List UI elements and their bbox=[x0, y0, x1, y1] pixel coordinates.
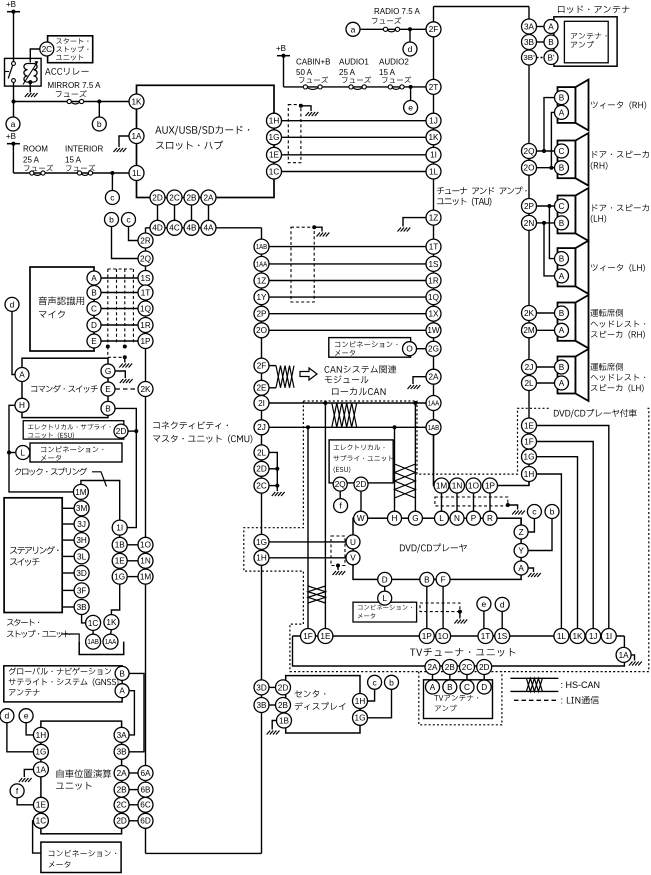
connector 1G pos bbox=[33, 744, 48, 759]
node f stub bbox=[17, 798, 33, 804]
connector C mic bbox=[87, 302, 101, 316]
connector 3M steering bbox=[74, 501, 89, 516]
svg-text:2C: 2C bbox=[462, 663, 473, 672]
label TV tuner bbox=[410, 649, 416, 656]
svg-text:50 A: 50 A bbox=[296, 68, 313, 77]
ground CMU-TAU shield bbox=[317, 233, 330, 237]
connector 6C cmu bbox=[138, 797, 153, 812]
connector D tvamp bbox=[477, 680, 491, 694]
wire 1A ground tv bbox=[631, 655, 634, 661]
connector 1G disp bbox=[353, 710, 368, 725]
connector 3B steering bbox=[74, 600, 89, 615]
svg-text:4A: 4A bbox=[203, 224, 214, 233]
wire can to 1E tv bbox=[324, 403, 326, 629]
wire A ground bbox=[529, 568, 534, 572]
connector 2R cmu bbox=[138, 233, 153, 248]
wire H left down bbox=[9, 405, 73, 492]
svg-text:2C: 2C bbox=[169, 193, 180, 202]
wire G ground bbox=[116, 371, 126, 378]
svg-text:L: L bbox=[21, 448, 26, 457]
twisted pair to tv bbox=[308, 586, 325, 603]
svg-text:1J: 1J bbox=[429, 117, 438, 126]
connector W dvd bbox=[354, 511, 368, 525]
svg-text:2N: 2N bbox=[524, 219, 535, 228]
svg-text:2R: 2R bbox=[140, 236, 151, 245]
svg-text:2L: 2L bbox=[524, 379, 534, 388]
label local CAN bbox=[332, 388, 338, 395]
svg-text::: : bbox=[561, 696, 564, 706]
node d left bbox=[5, 297, 19, 311]
node b stub top bbox=[112, 227, 139, 259]
svg-text:1B: 1B bbox=[115, 541, 126, 550]
connector 2C tv bbox=[460, 660, 475, 675]
node b cmu bbox=[105, 213, 119, 227]
svg-text:1L: 1L bbox=[132, 169, 142, 178]
wire aux row 1C-1L bbox=[282, 171, 427, 173]
svg-text:2Q: 2Q bbox=[524, 147, 535, 156]
connector 2J tau-sp bbox=[522, 360, 537, 375]
svg-text:3J: 3J bbox=[77, 520, 86, 529]
svg-text:1T: 1T bbox=[481, 632, 491, 641]
svg-text:1K: 1K bbox=[572, 632, 583, 641]
ground aux shield bbox=[306, 112, 319, 116]
wire +B2 down bbox=[12, 144, 14, 173]
connector 1E pos bbox=[33, 797, 48, 812]
svg-text:A: A bbox=[19, 370, 25, 379]
connector 2G tau bbox=[426, 341, 441, 356]
fuse MIRROR bbox=[71, 102, 80, 104]
wire Z to c bbox=[529, 519, 535, 532]
svg-text:ROOM: ROOM bbox=[23, 144, 48, 153]
connector R dvd bbox=[483, 511, 497, 525]
connector 4B cmu bbox=[184, 220, 199, 235]
connector B tvamp bbox=[443, 680, 457, 694]
svg-text:G: G bbox=[105, 367, 111, 376]
connector 1N dvd-cable bbox=[450, 478, 465, 493]
wire Y to b bbox=[529, 519, 552, 551]
connector 1Y cmu bbox=[254, 290, 269, 305]
svg-text:b: b bbox=[550, 507, 555, 517]
node c bbox=[105, 191, 119, 205]
svg-text:B: B bbox=[559, 219, 565, 228]
wire 1E tau to 1I tv bbox=[537, 426, 609, 629]
wire room/interior run bbox=[13, 172, 129, 174]
connector 2A aux bbox=[201, 190, 216, 205]
connector 1C pos bbox=[33, 813, 48, 828]
connector 2B pos bbox=[114, 782, 129, 797]
svg-text:2A: 2A bbox=[203, 193, 214, 202]
connector 4D cmu bbox=[150, 220, 165, 235]
svg-text:1T: 1T bbox=[141, 288, 151, 297]
svg-text:2K: 2K bbox=[140, 385, 151, 394]
svg-text:2B: 2B bbox=[278, 701, 289, 710]
node b disp bbox=[385, 675, 399, 689]
connector 2D disp bbox=[276, 680, 291, 695]
start-stop unit bracket bbox=[79, 642, 124, 655]
ground G bbox=[120, 379, 133, 383]
label CAN system modules bbox=[325, 366, 330, 373]
svg-text:1N: 1N bbox=[140, 557, 151, 566]
svg-text:1A: 1A bbox=[619, 651, 630, 660]
wire steering 3L bbox=[62, 555, 74, 557]
connector 3A tau-ant bbox=[522, 19, 537, 34]
connector B2 ant bbox=[544, 51, 558, 65]
wire steering 3D bbox=[62, 572, 74, 574]
connector B hr LH bbox=[555, 360, 569, 374]
node c stub bbox=[111, 173, 113, 190]
wire 2Q-C doorRH bbox=[537, 150, 555, 152]
svg-text:L: L bbox=[382, 594, 387, 603]
wire D to L meter bbox=[384, 587, 386, 591]
connector A hr LH bbox=[555, 376, 569, 390]
svg-text:1S: 1S bbox=[497, 632, 508, 641]
svg-text:2A: 2A bbox=[427, 663, 438, 672]
svg-text:1C: 1C bbox=[269, 167, 280, 176]
wire 1Z ground bbox=[403, 218, 426, 227]
connector 2D esu-left bbox=[114, 424, 128, 438]
svg-text:a: a bbox=[351, 24, 356, 34]
wire tweeter RH A bbox=[551, 112, 554, 167]
connector 1I tv bbox=[601, 629, 616, 644]
connector 2Q tau-sp bbox=[522, 144, 537, 159]
wire F to 1O tv bbox=[442, 587, 444, 629]
svg-text:2D: 2D bbox=[116, 427, 127, 436]
connector 1G cmu-dvd bbox=[254, 534, 269, 549]
connector 1H aux bbox=[267, 113, 282, 128]
GNSS antenna box bbox=[4, 666, 122, 702]
svg-text:6C: 6C bbox=[140, 801, 151, 810]
svg-text:3B: 3B bbox=[117, 748, 128, 757]
svg-text:2B: 2B bbox=[445, 663, 456, 672]
svg-text:1H: 1H bbox=[256, 554, 267, 563]
TAU left leg to 1M bbox=[434, 435, 436, 486]
wire B gnss to 3B bbox=[129, 673, 144, 751]
wire cmu to display 2D bbox=[269, 686, 276, 688]
wire aux row 1E-1I bbox=[282, 154, 427, 156]
connector 2A pos bbox=[114, 766, 129, 781]
svg-text:1X: 1X bbox=[428, 310, 439, 319]
wire +B down to relay bbox=[13, 12, 15, 62]
connector 2O tau-sp bbox=[522, 160, 537, 175]
node f pos bbox=[10, 784, 24, 798]
connector 3B2 tau-ant bbox=[522, 50, 537, 65]
svg-text:1S: 1S bbox=[428, 260, 439, 269]
connector 1K aux bbox=[129, 94, 144, 109]
wire 2Q esu to f bbox=[339, 492, 341, 499]
ground dvd shield bbox=[512, 511, 525, 515]
wire steering 3B bbox=[62, 606, 74, 608]
svg-text:E: E bbox=[105, 385, 111, 394]
svg-text:3D: 3D bbox=[76, 569, 87, 578]
svg-text:2D: 2D bbox=[479, 663, 490, 672]
connector 4C cmu bbox=[167, 220, 182, 235]
svg-text:3B: 3B bbox=[77, 603, 88, 612]
connector L dvd bbox=[435, 511, 449, 525]
rod antenna outer box bbox=[554, 17, 617, 66]
connectors 1M-1P row wires bbox=[441, 493, 443, 511]
svg-text:1AA: 1AA bbox=[105, 637, 117, 646]
connector 1AA cmu bbox=[254, 256, 269, 271]
fuse AUDIO1 bbox=[353, 87, 363, 89]
svg-text:3B: 3B bbox=[524, 38, 535, 47]
svg-text:c: c bbox=[372, 677, 377, 687]
node c dvd bbox=[527, 505, 541, 519]
wire 1H tau to 1L tv bbox=[537, 474, 562, 629]
node e tv bbox=[477, 597, 491, 611]
connector D mic bbox=[87, 318, 101, 332]
connector A ant bbox=[544, 20, 558, 34]
DVD/CD player box bbox=[353, 518, 521, 579]
connector 1Q cmu-mic bbox=[138, 301, 153, 316]
svg-text:1M: 1M bbox=[140, 573, 152, 582]
svg-text:1AB: 1AB bbox=[428, 423, 440, 432]
connector 2K cmu bbox=[138, 382, 153, 397]
wire CMU-TAU row 1AB-1T bbox=[269, 246, 426, 248]
connector 1Z cmu bbox=[254, 273, 269, 288]
node a radio bbox=[346, 22, 360, 36]
svg-text:1L: 1L bbox=[557, 632, 567, 641]
svg-text:1AB: 1AB bbox=[256, 242, 268, 251]
speaker headrest RH bbox=[558, 303, 576, 341]
AUX/USB/SD card slot hub box bbox=[137, 85, 275, 197]
connector 6B cmu bbox=[138, 782, 153, 797]
CMU left edge bbox=[145, 228, 147, 854]
connector 2M tau-sp bbox=[522, 323, 537, 338]
node d stub bbox=[409, 29, 411, 42]
connector B tweeter RH bbox=[555, 91, 569, 105]
connector P dvd bbox=[467, 511, 481, 525]
connector 2T tau bbox=[426, 79, 441, 94]
connector 3F steering bbox=[74, 583, 89, 598]
node d tv bbox=[495, 597, 509, 611]
fuse INTERIOR bbox=[81, 174, 89, 176]
tv tuner bottom stubs bbox=[432, 675, 434, 681]
label clock spring bbox=[15, 468, 21, 475]
speaker tweeter RH bbox=[558, 87, 576, 123]
wire 2L-2D-2C ground bbox=[269, 452, 277, 491]
connector 1AB cmu bbox=[254, 239, 269, 254]
wire CMU-TAU row 2O-1W bbox=[269, 329, 426, 331]
wire cmu 1H to V bbox=[269, 557, 346, 559]
wire local CAN low bbox=[269, 426, 426, 428]
connector 1H tau-dvd bbox=[522, 467, 537, 482]
wire aux row 1H-1J bbox=[282, 120, 427, 122]
svg-text:3A: 3A bbox=[524, 22, 535, 31]
wire 2K-B hrRH bbox=[537, 312, 555, 314]
svg-text:C: C bbox=[559, 147, 565, 156]
svg-text:1AA: 1AA bbox=[428, 399, 440, 408]
svg-text:2P: 2P bbox=[524, 202, 535, 211]
connector L meter bbox=[378, 591, 392, 605]
wire 2L-A hrLH bbox=[537, 382, 555, 384]
node e stub bbox=[410, 87, 412, 101]
svg-text:1P: 1P bbox=[140, 337, 151, 346]
wire 3A-A bbox=[537, 26, 544, 28]
wire cmu to display 2B bbox=[269, 704, 276, 706]
svg-text:2K: 2K bbox=[524, 309, 535, 318]
speaker headrest LH bbox=[558, 357, 576, 394]
svg-text:2C: 2C bbox=[116, 801, 127, 810]
svg-text:E: E bbox=[91, 337, 97, 346]
connector 1R tau bbox=[426, 273, 441, 288]
connector 2A tau bbox=[426, 369, 441, 384]
node d stub left bbox=[12, 312, 15, 375]
svg-text:1O: 1O bbox=[468, 481, 479, 490]
label door speaker LH bbox=[593, 204, 598, 211]
node b stub bbox=[98, 102, 100, 118]
connector F dvd bbox=[436, 572, 450, 586]
connector 1L tv bbox=[554, 629, 569, 644]
connector 1I col bbox=[112, 520, 127, 535]
svg-text:6B: 6B bbox=[140, 786, 151, 795]
svg-text:2E: 2E bbox=[256, 384, 267, 393]
wire 1A ground bbox=[119, 136, 129, 147]
svg-text:1Q: 1Q bbox=[140, 304, 151, 313]
svg-text:B: B bbox=[559, 164, 565, 173]
connector 1S tv bbox=[495, 629, 510, 644]
svg-text:d: d bbox=[500, 599, 505, 609]
connector 1M dvd-cable bbox=[434, 478, 449, 493]
ground A dvd bbox=[528, 573, 541, 577]
svg-text:4C: 4C bbox=[169, 224, 180, 233]
svg-text:B': B' bbox=[547, 53, 554, 62]
node d radio bbox=[403, 42, 417, 56]
connector B tweeter LH bbox=[555, 252, 569, 266]
svg-text:3A: 3A bbox=[117, 731, 128, 740]
svg-text:2L: 2L bbox=[257, 448, 267, 457]
connector L meter-left bbox=[16, 446, 30, 460]
ESU box left bbox=[23, 421, 124, 439]
svg-text:2Q: 2Q bbox=[140, 254, 151, 263]
connector 2F tau bbox=[426, 22, 441, 37]
connector 4A cmu bbox=[201, 220, 216, 235]
connector 3L steering bbox=[74, 549, 89, 564]
arrow to CAN module bbox=[300, 368, 317, 380]
svg-text:1O: 1O bbox=[438, 632, 449, 641]
svg-text:1Y: 1Y bbox=[256, 293, 267, 302]
connector 1H pos bbox=[33, 727, 48, 742]
wire 1G-1M bbox=[127, 576, 138, 578]
connector A tvamp bbox=[426, 680, 440, 694]
wire 2F-2E CAN stubs bbox=[269, 365, 276, 367]
node e stub gnss bbox=[26, 723, 33, 735]
wire 1E-1N bbox=[127, 560, 138, 562]
svg-text:1K: 1K bbox=[131, 97, 142, 106]
svg-text:1O: 1O bbox=[140, 541, 151, 550]
wire cmu 1G to U bbox=[269, 541, 346, 543]
svg-text:N: N bbox=[454, 514, 460, 523]
connector 3J steering bbox=[74, 517, 89, 532]
legend HS-CAN bbox=[510, 677, 558, 679]
connector 2C cmu bbox=[254, 478, 269, 493]
svg-text:RADIO 7.5 A: RADIO 7.5 A bbox=[374, 7, 420, 16]
svg-text:+B: +B bbox=[276, 44, 286, 53]
TAU left leg bbox=[433, 7, 435, 436]
node b dvd bbox=[545, 505, 559, 519]
connector 1P dvd-cable bbox=[483, 478, 498, 493]
connector U dvd bbox=[346, 535, 360, 549]
label ACC relay bbox=[45, 68, 51, 75]
connector 2I cmu bbox=[254, 396, 269, 411]
shield around CMU-TAU wires bbox=[291, 227, 314, 302]
CMU top edge bbox=[146, 227, 262, 229]
svg-text:2A: 2A bbox=[428, 373, 439, 382]
connector 2C pos bbox=[114, 797, 129, 812]
node f esu bbox=[334, 499, 348, 513]
connector 1M cmu2 bbox=[138, 569, 153, 584]
node a stub bbox=[13, 102, 15, 118]
CMU right edge bbox=[261, 228, 263, 854]
wire mirror fuse run bbox=[14, 101, 130, 103]
connector V dvd bbox=[346, 551, 360, 565]
connector N dvd bbox=[450, 511, 464, 525]
label tweeter RH bbox=[591, 101, 598, 108]
connector 1AA tau-can bbox=[426, 396, 441, 411]
connector 1A tv bbox=[616, 647, 631, 662]
svg-text:b: b bbox=[97, 119, 102, 129]
connector Y dvd bbox=[514, 544, 528, 558]
connector H commander bbox=[15, 398, 29, 412]
svg-text:e: e bbox=[408, 103, 413, 113]
svg-text:1R: 1R bbox=[428, 276, 439, 285]
ground UV shield bbox=[333, 571, 346, 575]
svg-text:1C: 1C bbox=[36, 817, 47, 826]
wires pos to cmu 2A-6A etc bbox=[129, 772, 138, 774]
svg-text:15 A: 15 A bbox=[65, 155, 82, 164]
connector C tvamp bbox=[460, 680, 474, 694]
connector 1K tv bbox=[570, 629, 585, 644]
svg-text:2D: 2D bbox=[256, 465, 267, 474]
svg-text:2F: 2F bbox=[257, 362, 267, 371]
center display box bbox=[286, 676, 360, 733]
svg-text:2D: 2D bbox=[356, 480, 367, 489]
svg-text:AUDIO2: AUDIO2 bbox=[379, 57, 409, 66]
svg-text:1Z: 1Z bbox=[257, 276, 267, 285]
connector 1R cmu-mic bbox=[138, 318, 153, 333]
svg-text:1E: 1E bbox=[269, 151, 280, 160]
wire 2A ground bbox=[413, 377, 426, 384]
svg-text:1N: 1N bbox=[452, 481, 463, 490]
wire radio fuse run bbox=[360, 28, 426, 30]
wire 1C to meter bbox=[33, 821, 41, 853]
connector 1P tv bbox=[419, 629, 434, 644]
connector 2B disp bbox=[276, 698, 291, 713]
label start-stop unit bbox=[7, 619, 14, 625]
connector A dvd bbox=[514, 561, 528, 575]
connector C door LH bbox=[555, 199, 569, 213]
voice recognition mic box bbox=[30, 267, 94, 351]
svg-text:2C: 2C bbox=[42, 45, 53, 54]
connector 1C aux bbox=[267, 164, 282, 179]
TAU right leg bbox=[528, 7, 530, 486]
svg-text:B: B bbox=[559, 363, 565, 372]
ground at 1A bbox=[114, 148, 127, 152]
connector 1E aux bbox=[267, 147, 282, 162]
wire L to H wire bbox=[9, 452, 15, 454]
svg-text:: HS-CAN: : HS-CAN bbox=[561, 680, 601, 690]
svg-text:1G: 1G bbox=[524, 453, 535, 462]
combination meter box (left) bbox=[30, 443, 122, 462]
connector O meter bbox=[403, 342, 417, 356]
position calc unit box bbox=[41, 721, 122, 834]
wire cabin/audio run bbox=[284, 86, 427, 88]
connector 1G tau-dvd bbox=[522, 449, 537, 464]
connector 1C ss bbox=[86, 615, 101, 630]
svg-text:F: F bbox=[441, 575, 446, 584]
wire mic E-1P bbox=[102, 340, 139, 342]
connector B gnss bbox=[115, 666, 129, 680]
mic shield lines bbox=[108, 268, 134, 270]
